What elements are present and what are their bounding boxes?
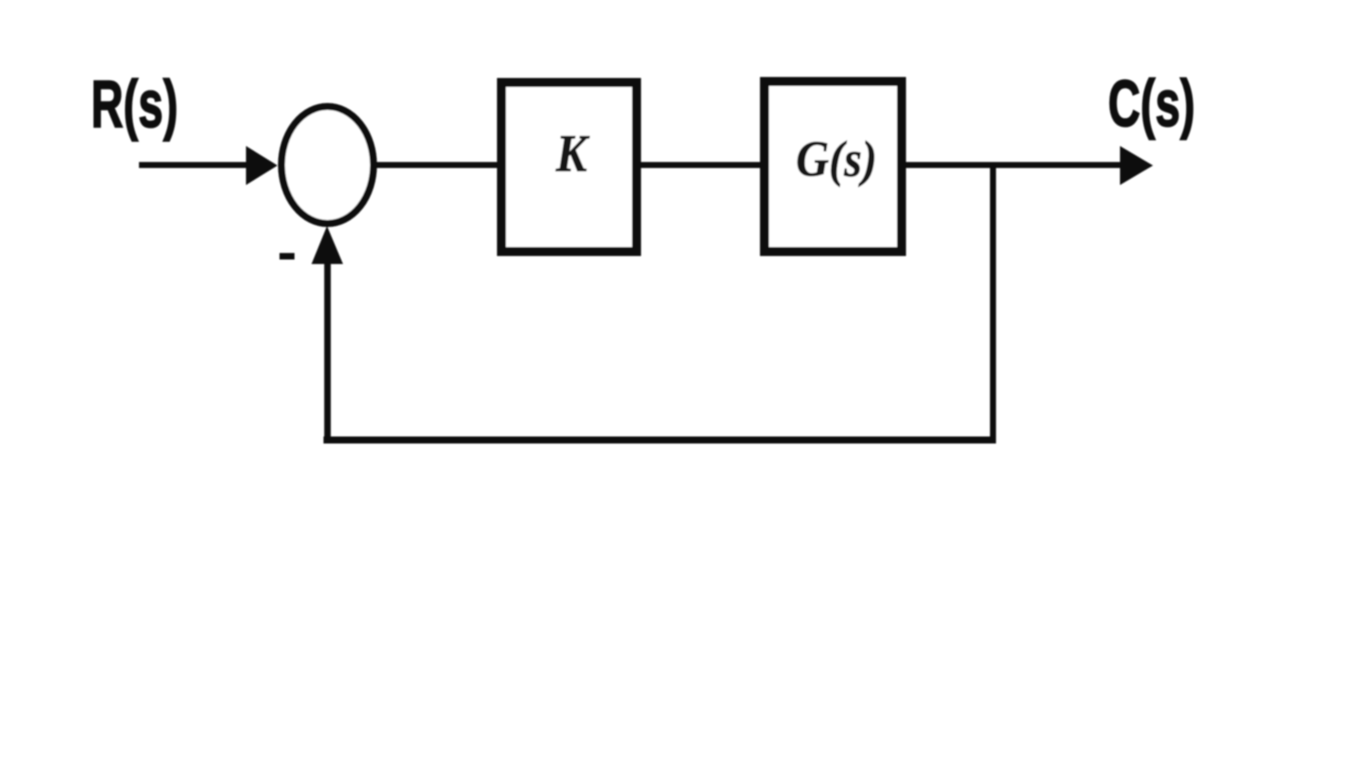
wire summing junction to block K [373, 162, 500, 168]
svg-text:R(s): R(s) [91, 67, 178, 142]
svg-text:K: K [555, 125, 590, 183]
svg-text:G(s): G(s) [796, 132, 877, 188]
node takeoff point / wire feedback right vertical [990, 163, 996, 440]
arrowhead output [1120, 146, 1153, 185]
minus sign [280, 253, 295, 260]
wire input [139, 162, 252, 168]
arrowhead into summing junction [246, 146, 278, 185]
wire feedback bottom horizontal [324, 437, 997, 444]
block G(s) box [765, 82, 902, 252]
arrowhead feedback into summing junction [312, 226, 344, 264]
wire feedback left vertical [324, 262, 331, 443]
block K box [502, 83, 637, 252]
wire output [902, 162, 1124, 168]
svg-text:C(s): C(s) [1108, 66, 1195, 140]
wire K to G(s) [637, 162, 764, 168]
summing junction circle [282, 107, 374, 224]
